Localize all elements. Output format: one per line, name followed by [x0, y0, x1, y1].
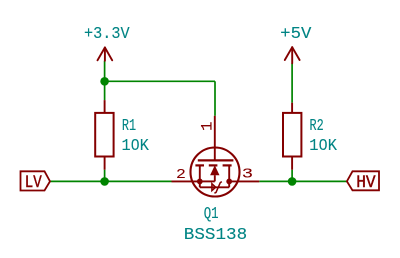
svg-text:Q1: Q1 [204, 204, 219, 223]
svg-text:LV: LV [25, 173, 42, 193]
svg-text:+5V: +5V [280, 24, 311, 43]
svg-text:+3.3V: +3.3V [84, 24, 130, 43]
svg-text:BSS138: BSS138 [184, 225, 247, 244]
svg-text:R1: R1 [122, 116, 136, 135]
svg-text:HV: HV [356, 173, 376, 193]
svg-text:R2: R2 [310, 116, 324, 135]
svg-text:2: 2 [176, 166, 186, 182]
svg-text:3: 3 [242, 166, 253, 182]
svg-text:1: 1 [198, 122, 216, 131]
